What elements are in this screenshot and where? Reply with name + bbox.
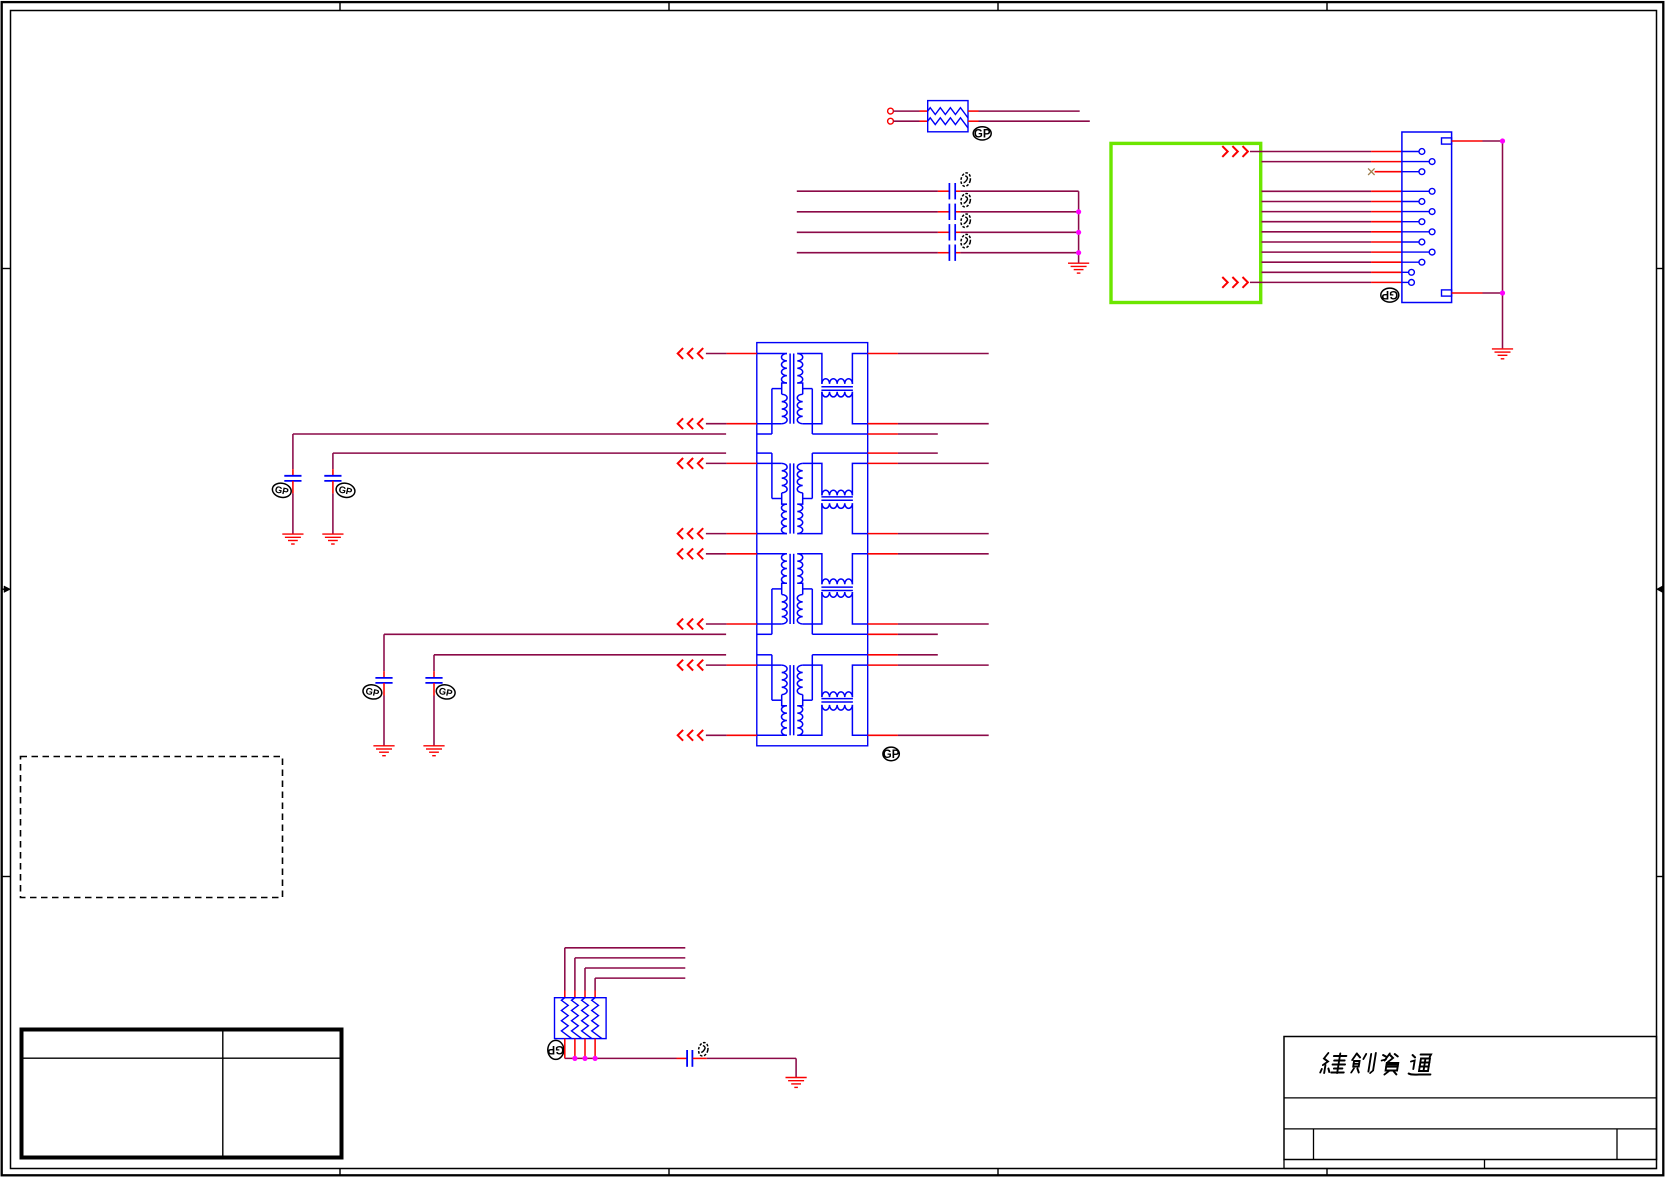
title block bottom-right (1284, 1037, 1657, 1169)
input arrows T pin row 5 (678, 548, 704, 559)
label GP (RP2, rotated) (547, 1040, 564, 1059)
node junctions RP2 common (572, 1056, 597, 1061)
connector J2 pin 1 (1402, 149, 1425, 155)
frame zone ticks left (3, 269, 11, 877)
wire T right center-tap 4 (868, 654, 938, 656)
wire C3 to ground (383, 683, 385, 746)
input arrows T pin row 4 (678, 528, 704, 539)
output arrows U1 TX (1222, 146, 1248, 157)
wire center-tap net to C3 (384, 634, 726, 678)
transformer T1 (757, 354, 868, 435)
frame zone ticks bottom (340, 1169, 1327, 1175)
ground (C3) (373, 746, 394, 756)
connector pins J3 (red circles) (888, 108, 894, 124)
input arrows T pin row 2 (678, 418, 704, 429)
input arrows T pin row 6 (678, 619, 704, 630)
label C12 (erased) (960, 193, 972, 208)
wire C4 to ground (433, 683, 435, 746)
connector J2 pin 6 (1402, 209, 1435, 215)
wire RP2 input 3 (585, 968, 685, 998)
wire J2 shield top to ground net (1452, 140, 1503, 142)
wire U1 to J2 row 1 (1250, 151, 1402, 153)
connector J2 pin 5 (1402, 199, 1425, 205)
wire U1 to J2 row 9 (1262, 241, 1402, 243)
wire U1 to J2 row 10 (1262, 251, 1402, 253)
transformer T4 (flipped) (757, 655, 868, 736)
frame zone ticks right (1657, 269, 1664, 877)
wire RP2 input 2 (575, 958, 685, 998)
label GP (transformer) (883, 747, 900, 761)
wire T right center-tap 2 (868, 452, 938, 454)
wire T left pin row 4 (706, 533, 757, 535)
wire T right pin row 6 (868, 623, 989, 625)
wire U1 to J2 row 13 (1250, 281, 1402, 283)
wire C7 to ground (693, 1058, 796, 1077)
capacitor C2 (324, 476, 341, 481)
fold arrow left (3, 586, 11, 593)
wire RP2 common (565, 1057, 687, 1059)
wire center-tap net to C4 (434, 655, 726, 678)
connector J2 pin 10 (1402, 249, 1435, 255)
wire U1 to J2 row 11 (1262, 261, 1402, 263)
svg-text:GP: GP (1381, 288, 1398, 300)
wire T left pin row 3 (706, 462, 757, 464)
wire net MX4 (797, 252, 1079, 254)
transformer T2 (flipped) (757, 453, 868, 534)
capacitor C1 (284, 476, 301, 481)
ground (C1) (282, 534, 303, 544)
wire T right pin row 3 (868, 462, 989, 464)
wire RP2 output 4 (594, 1039, 596, 1059)
label C14 (erased) (960, 233, 972, 248)
connector J2 pin 12 (1402, 269, 1415, 275)
wire U1 to J2 row 6 (1262, 211, 1402, 213)
wire T left pin row 1 (706, 353, 757, 355)
ground (series caps) (1068, 263, 1089, 273)
wire RP2 input 1 (565, 948, 686, 998)
connector J2 mounting tab top (1442, 138, 1452, 144)
label GP (J2, rotated) (1381, 288, 1399, 302)
title block table bottom-left (22, 1030, 342, 1158)
transformer outer box T1-T4 (757, 343, 868, 746)
wire shield ground vertical (1502, 141, 1504, 348)
wire U1 to J2 row 2 (1262, 161, 1402, 163)
wire T left pin row 7 (706, 664, 757, 666)
connector J2 pin 13 (1402, 280, 1415, 286)
wire center-tap net to C1 (293, 434, 726, 476)
wire T right pin row 7 (868, 664, 989, 666)
wire T right pin row 1 (868, 353, 989, 355)
wire U1 to J2 row 8 (1262, 231, 1402, 233)
input arrows T pin row 1 (678, 348, 704, 359)
wire C1 to ground (292, 481, 294, 534)
node junctions on common (1076, 209, 1081, 255)
wire U1 to J2 row 5 (1262, 201, 1402, 203)
wire RP1 outputs (968, 111, 1090, 121)
wire J3 to RP1 (894, 111, 928, 121)
wire common to ground (series caps) (1078, 191, 1080, 263)
wire U1 to J2 row 7 (1262, 221, 1402, 223)
fold arrow right (1657, 586, 1663, 593)
ground (shield) (1492, 349, 1513, 359)
connector J2 pin 7 (1402, 219, 1425, 225)
svg-text:GP: GP (547, 1043, 564, 1055)
wire T right pin row 5 (868, 553, 989, 555)
input arrows T pin row 8 (678, 730, 704, 741)
label C13 (erased) (960, 213, 972, 228)
capacitor C7 (687, 1050, 692, 1067)
input arrows T pin row 3 (678, 458, 704, 469)
capacitor C14 (series) (949, 245, 955, 261)
resistor pack RP2 (555, 998, 607, 1039)
wire U1 to J2 row 3 (1375, 171, 1402, 173)
wire RP2 output 3 (584, 1039, 586, 1059)
wire T right center-tap 3 (868, 633, 938, 635)
svg-text:GP: GP (974, 129, 991, 141)
wire T left pin row 6 (706, 623, 757, 625)
wire net MX1 (797, 190, 1079, 192)
wire U1 to J2 row 12 (1262, 271, 1402, 273)
connector J2 body (1402, 132, 1452, 303)
ground (C4) (423, 746, 444, 756)
label C3 (scribble) (362, 683, 383, 701)
label GP (RP1) (973, 127, 991, 141)
frame zone ticks top (340, 3, 1327, 11)
connector J2 pin 11 (1402, 259, 1425, 265)
wire T left pin row 2 (706, 423, 757, 425)
wire center-tap net to C2 (333, 453, 726, 476)
company logo text (Wistron) (1320, 1053, 1433, 1075)
revision dashed box (21, 757, 283, 898)
capacitor C11 (series) (949, 183, 955, 199)
connector J2 pin 4 (1402, 188, 1435, 194)
wire RP2 output 2 (574, 1039, 576, 1059)
wire RP2 input 4 (595, 978, 685, 998)
wire C2 to ground (332, 481, 334, 534)
connector J2 mounting tab bottom (1442, 290, 1452, 296)
wire T left pin row 5 (706, 553, 757, 555)
wire T right pin row 4 (868, 533, 989, 535)
wire T right pin row 2 (868, 423, 989, 425)
ground (C7) (786, 1078, 807, 1088)
wire net MX2 (797, 211, 1079, 213)
wire net MX3 (797, 231, 1079, 233)
input arrows T pin row 7 (678, 660, 704, 671)
capacitor C3 (375, 678, 392, 683)
wire U1 to J2 row 4 (1262, 190, 1402, 192)
label C11 (erased) (960, 172, 972, 187)
transformer T3 (757, 554, 868, 635)
wire RP2 output 1 (564, 1039, 566, 1059)
wire T right center-tap 1 (868, 433, 938, 435)
ground (C2) (322, 534, 343, 544)
resistor pack RP1 (928, 101, 968, 132)
capacitor C13 (series) (949, 224, 955, 240)
label C1 (scribble) (271, 481, 292, 499)
connector J2 pin 9 (1402, 239, 1425, 245)
label C2 (scribble) (335, 481, 356, 499)
label C4 (scribble) (435, 683, 456, 701)
no-connect X mark pin 3 (1368, 168, 1375, 175)
connector J2 pin 3 (1402, 169, 1425, 175)
capacitor C4 (425, 678, 442, 683)
wire J2 shield bottom to ground net (1452, 292, 1503, 294)
capacitor C12 (series) (949, 204, 955, 220)
connector J2 pin 8 (1402, 229, 1435, 235)
svg-text:GP: GP (883, 749, 900, 761)
label C7 (erased) (697, 1042, 709, 1057)
node junctions shield (1500, 138, 1505, 295)
wire T right pin row 8 (868, 734, 989, 736)
wire T left pin row 8 (706, 734, 757, 736)
output arrows U1 RX (1222, 277, 1248, 288)
ic outline U1 (green) (1111, 143, 1261, 302)
connector J2 pin 2 (1402, 159, 1435, 165)
